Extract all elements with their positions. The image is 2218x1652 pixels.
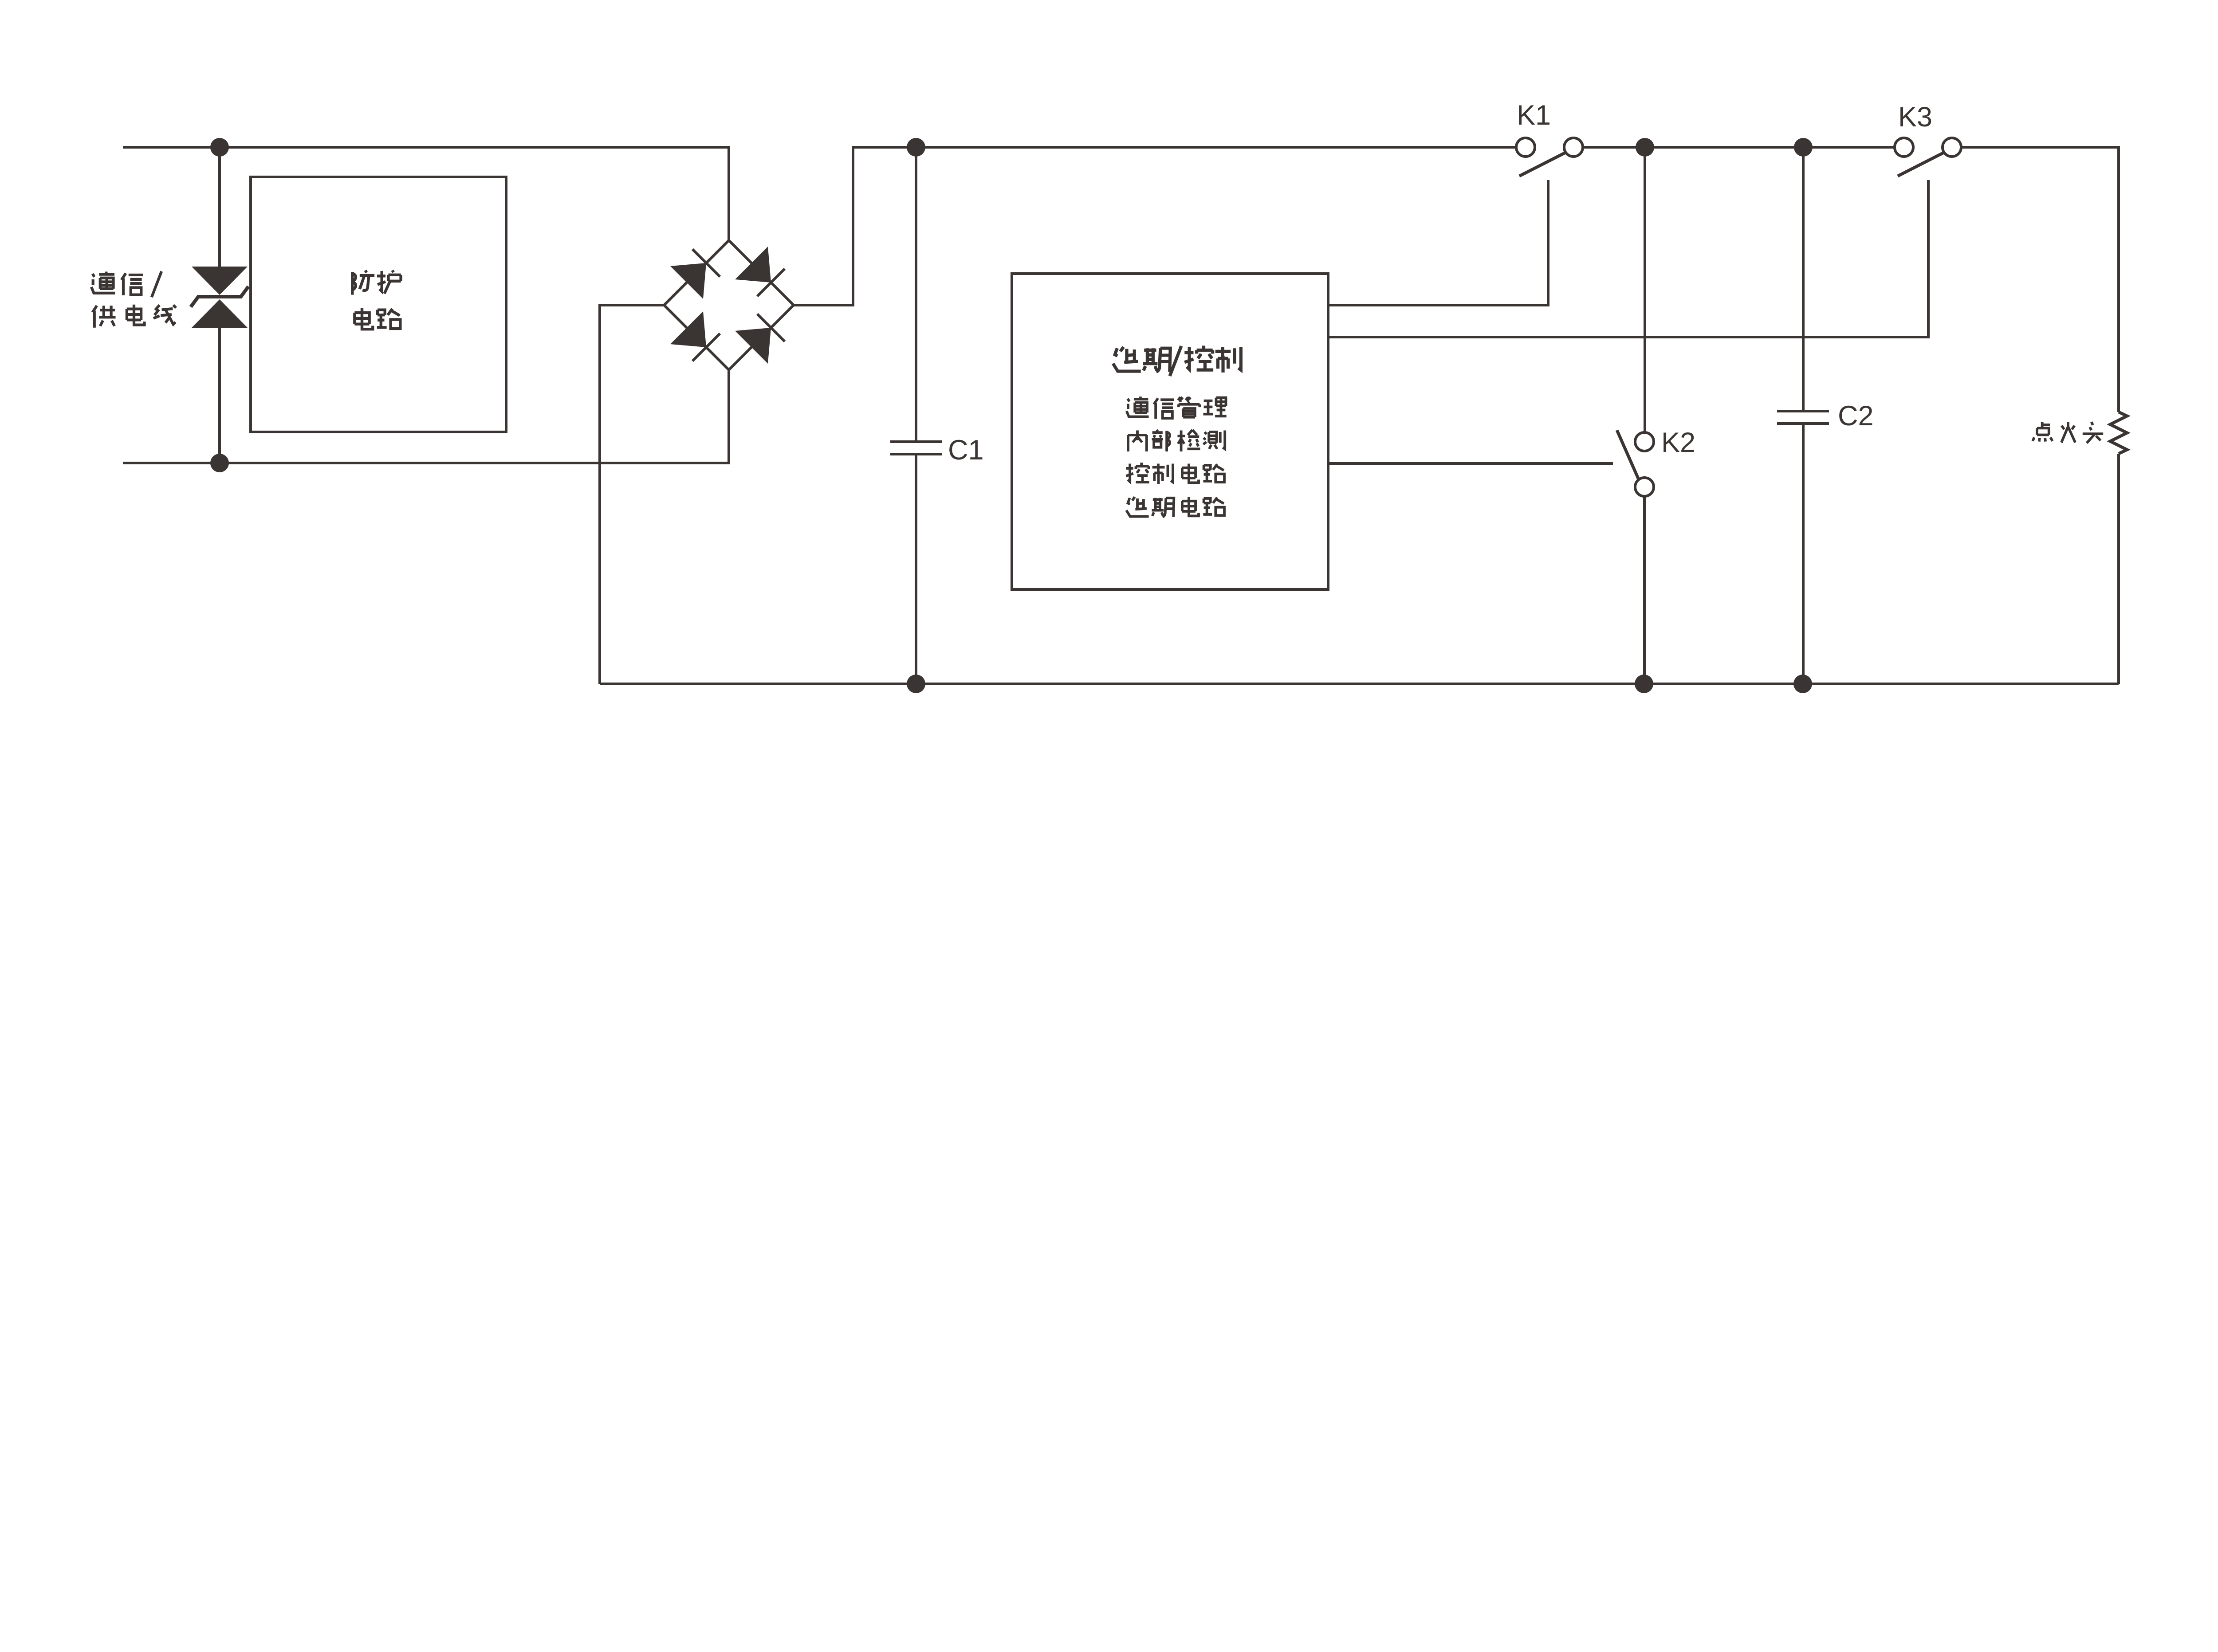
wire bottom ground rail <box>600 683 2119 685</box>
label 电路 protection box line2 <box>354 308 400 329</box>
wire control line to K3 coil <box>1328 180 1928 337</box>
svg-text:C2: C2 <box>1838 400 1874 432</box>
wire top-left input line <box>123 147 729 240</box>
wire C1 lower lead <box>915 454 917 684</box>
wire C2 lower lead <box>1802 424 1805 684</box>
node junction bottom input / TVS <box>210 454 229 472</box>
wire control line to K1 coil <box>1328 180 1548 305</box>
capacitor C2 plates <box>1777 411 1829 424</box>
diode D1 top-left arm (arrow + cathode bar) <box>670 249 720 299</box>
diode D3 bottom-left arm (arrow + cathode bar) <box>670 311 720 361</box>
wire DC bus K1 to K3 <box>1583 146 1895 149</box>
label 内部检测 <box>1128 430 1225 451</box>
TVS suppressor diode (bidirectional) <box>192 267 248 328</box>
resistor igniter 点火头 zigzag <box>2110 412 2127 454</box>
label 点火头 igniter <box>2033 422 2103 443</box>
label 防护 protection box line1 <box>352 271 401 295</box>
svg-text:K2: K2 <box>1661 427 1695 458</box>
capacitor C1 plates <box>890 442 942 454</box>
switch K1 contact circles <box>1516 138 1583 157</box>
label 通信/供电线 input lines <box>91 271 176 328</box>
diode D2 top-right arm (arrow + cathode bar) <box>735 247 785 296</box>
wire K2 to bottom rail <box>1643 496 1646 684</box>
wire bridge positive output up to DC bus <box>794 147 1516 305</box>
switch K1 blade <box>1519 153 1565 176</box>
node junction C2 branch top <box>1794 138 1813 157</box>
node junction C1 bottom rail <box>907 675 925 693</box>
wire C2 upper lead <box>1802 147 1805 411</box>
switch K2 blade <box>1617 430 1639 479</box>
wire control line to K2 coil <box>1328 462 1613 465</box>
wire bottom-left input line <box>123 370 729 463</box>
wire bridge negative output to bottom rail <box>600 305 664 684</box>
label 延期电路 <box>1126 497 1224 517</box>
TVS zener bar with hooks <box>191 286 248 307</box>
node junction K2 bottom rail <box>1635 675 1653 693</box>
node junction C2 bottom rail <box>1793 675 1812 693</box>
svg-text:K1: K1 <box>1517 100 1551 131</box>
wire C1 upper lead <box>915 147 917 442</box>
diode D4 bottom-right arm (arrow + cathode bar) <box>735 314 785 364</box>
node junction C1 top <box>907 138 925 157</box>
svg-text:K3: K3 <box>1898 102 1932 133</box>
wire igniter to bottom rail <box>2117 454 2120 684</box>
label 通信管理 <box>1127 396 1227 419</box>
label 控制电路 <box>1126 463 1224 484</box>
delay/control block 延期/控制 <box>1012 274 1328 589</box>
node junction top input / TVS <box>210 138 229 157</box>
wire K3 to igniter top <box>1961 147 2119 412</box>
wire TVS vertical branch <box>218 147 221 463</box>
switch K3 contact circles <box>1895 138 1961 157</box>
TEXT LABELS <box>948 100 1932 466</box>
switch K2 contact circles <box>1635 432 1654 496</box>
bridge rectifier diamond <box>664 240 794 370</box>
label 延期/控制 title <box>1113 345 1241 376</box>
switch K3 blade <box>1898 153 1944 176</box>
wire K2 branch down <box>1644 147 1646 432</box>
svg-text:C1: C1 <box>948 435 984 466</box>
protection circuit block 防护电路 <box>251 177 506 432</box>
node junction K2 branch top <box>1636 138 1654 157</box>
